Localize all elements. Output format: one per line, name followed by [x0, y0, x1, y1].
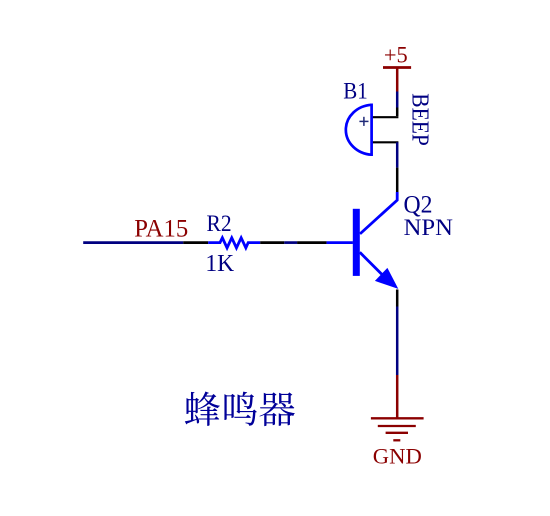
svg-text:+5: +5: [384, 42, 408, 67]
svg-text:1K: 1K: [205, 251, 234, 277]
svg-text:GND: GND: [373, 444, 422, 469]
svg-text:BEEP: BEEP: [407, 93, 434, 146]
svg-text:NPN: NPN: [404, 215, 454, 240]
svg-text:B1: B1: [343, 78, 368, 103]
svg-text:PA15: PA15: [134, 215, 188, 242]
svg-text:R2: R2: [207, 211, 232, 236]
